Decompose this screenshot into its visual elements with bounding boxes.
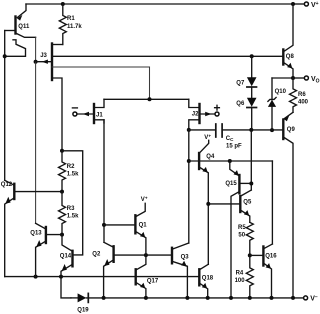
svg-text:Q1: Q1 [139, 223, 148, 229]
transistor Q18 [199, 264, 214, 298]
resistor R6 400 [290, 78, 309, 112]
resistor R4 100 [235, 255, 254, 298]
svg-text:Q5: Q5 [243, 199, 252, 205]
node Vo junction [291, 76, 295, 80]
svg-text:1.5k: 1.5k [67, 172, 79, 178]
node Q15 base junction [249, 182, 253, 186]
transistor Q17 [136, 255, 159, 298]
transistor Q13 [30, 223, 62, 276]
wire diode chain to Q15 base [250, 130, 252, 190]
transistor Q8 [283, 4, 294, 78]
transistor Q5 [208, 190, 252, 222]
capacitor Cc 15 pF [189, 124, 252, 149]
node Q18 emitter junction [206, 296, 210, 300]
wire J1-J2 common source [104, 98, 189, 100]
node Q15 collector junction [229, 296, 233, 300]
transistor Q11 [5, 4, 36, 56]
svg-text:R5: R5 [238, 225, 246, 231]
node Q10 anode junction [270, 128, 274, 132]
transistor Q1 [104, 195, 148, 255]
svg-text:Q10: Q10 [275, 89, 287, 95]
svg-text:Q9: Q9 [287, 127, 296, 133]
wire Q14 base branch [62, 151, 83, 255]
transistor Q4 [199, 133, 215, 264]
node Q2 emitter junction [102, 296, 106, 300]
node Q1 base junction [102, 223, 106, 227]
node Q14 emitter junction [59, 275, 63, 279]
svg-text:Q16: Q16 [265, 254, 277, 260]
transistor Q2 [92, 242, 172, 298]
resistor R1 11.7k [59, 4, 82, 45]
svg-text:J2: J2 [192, 112, 199, 118]
JFET J2 [189, 99, 220, 130]
terminal Vo [304, 76, 319, 84]
svg-text:R4: R4 [236, 271, 244, 277]
svg-text:Q14: Q14 [60, 254, 72, 260]
svg-text:CC: CC [226, 136, 234, 142]
svg-text:11.7k: 11.7k [67, 24, 82, 30]
node J3 source to R2 junction [60, 149, 64, 153]
wire J3 gate node to Q13 collector [35, 62, 37, 224]
node Cc right junction [249, 128, 253, 132]
node Q11 base-collector tie [3, 54, 7, 58]
wire V+ top rail [26, 3, 304, 5]
node mirror base junction [144, 253, 148, 257]
node Q4 base junction [187, 159, 191, 163]
terminal V- [304, 295, 318, 303]
svg-text:Q19: Q19 [77, 307, 89, 313]
node Q16 base junction [248, 253, 252, 257]
svg-text:J3: J3 [40, 53, 47, 59]
wire J2 drain vertical [188, 130, 190, 243]
transistor Q9 [251, 112, 295, 298]
svg-text:Q18: Q18 [202, 275, 214, 281]
svg-text:Q3: Q3 [181, 255, 190, 261]
resistor R2 1.5k [59, 151, 80, 192]
svg-text:Q13: Q13 [30, 231, 42, 237]
wire emitter bias rail [5, 276, 200, 278]
wire Vo [293, 77, 304, 79]
node Q8 collector junction [291, 2, 295, 6]
resistor R5 50 [238, 222, 253, 255]
node Q9 collector junction [291, 296, 295, 300]
node Q8 base junction [250, 54, 254, 58]
svg-text:Q15: Q15 [225, 181, 237, 187]
diode Q19 [71, 293, 304, 313]
node Q13 base junction [60, 233, 64, 237]
node J2 drain / Cc junction [187, 128, 191, 132]
node Q3 emitter junction [185, 296, 189, 300]
node R1 top junction [61, 2, 65, 6]
wire Q11 collector to J3 gate [35, 37, 37, 61]
diode Q7 [236, 56, 256, 87]
svg-text:400: 400 [298, 99, 309, 105]
wire to V- rail [61, 277, 71, 298]
resistor R3 1.5k [59, 192, 80, 235]
wire J1 drain vertical [103, 120, 105, 243]
node R2 R3 junction [60, 190, 64, 194]
svg-text:100: 100 [235, 278, 246, 284]
svg-text:R6: R6 [298, 92, 306, 98]
svg-text:Q7: Q7 [236, 80, 245, 86]
transistor Q12 [1, 180, 62, 276]
terminal V+ [304, 1, 318, 9]
svg-text:Q17: Q17 [147, 279, 159, 285]
node common source junction [148, 97, 152, 101]
node Q13 emitter junction [34, 275, 38, 279]
node J3 gate junction [34, 60, 38, 64]
diode Q6 [236, 87, 256, 130]
node Q16 emitter junction [270, 296, 274, 300]
svg-text:50: 50 [238, 232, 245, 238]
JFET J1 [72, 99, 104, 123]
wire J3 drain to Q8 base [52, 55, 283, 57]
transistor Q14 [60, 235, 73, 277]
node Q5 base junction [206, 202, 210, 206]
JFET J3 [36, 44, 150, 151]
svg-text:R2: R2 [67, 164, 75, 170]
svg-text:Q4: Q4 [206, 154, 215, 160]
svg-text:Q6: Q6 [236, 101, 245, 107]
svg-text:Q8: Q8 [286, 54, 295, 60]
svg-text:1.5k: 1.5k [67, 214, 79, 220]
svg-text:Q2: Q2 [92, 251, 101, 257]
svg-text:R3: R3 [67, 206, 75, 212]
wire Q11 base vertical [4, 31, 6, 181]
wire second stage rail [189, 160, 273, 162]
svg-text:Q12: Q12 [1, 182, 13, 188]
transistor Q16 [250, 244, 277, 298]
svg-text:J1: J1 [96, 112, 103, 118]
node Q15 emitter junction [228, 159, 232, 163]
transistor Q15 [225, 161, 251, 298]
zener Q10 [268, 78, 293, 130]
svg-text:15 pF: 15 pF [226, 143, 242, 149]
node R4 bottom junction [248, 296, 252, 300]
transistor Q3 [172, 243, 189, 298]
node Q17 emitter junction [144, 296, 148, 300]
svg-text:R1: R1 [67, 16, 75, 22]
svg-text:Q11: Q11 [18, 24, 30, 30]
